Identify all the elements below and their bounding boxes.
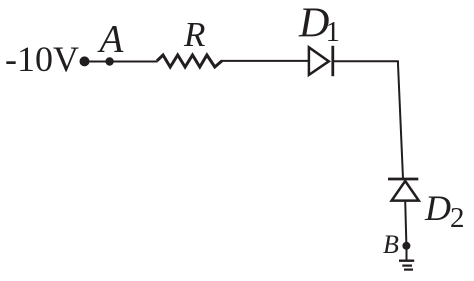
svg-text:D: D (424, 188, 451, 228)
svg-text:B: B (383, 230, 399, 259)
svg-text:2: 2 (450, 202, 465, 234)
svg-text:A: A (97, 18, 124, 61)
svg-text:1: 1 (326, 16, 341, 48)
svg-text:R: R (183, 15, 205, 54)
svg-text:-10V: -10V (5, 39, 79, 79)
